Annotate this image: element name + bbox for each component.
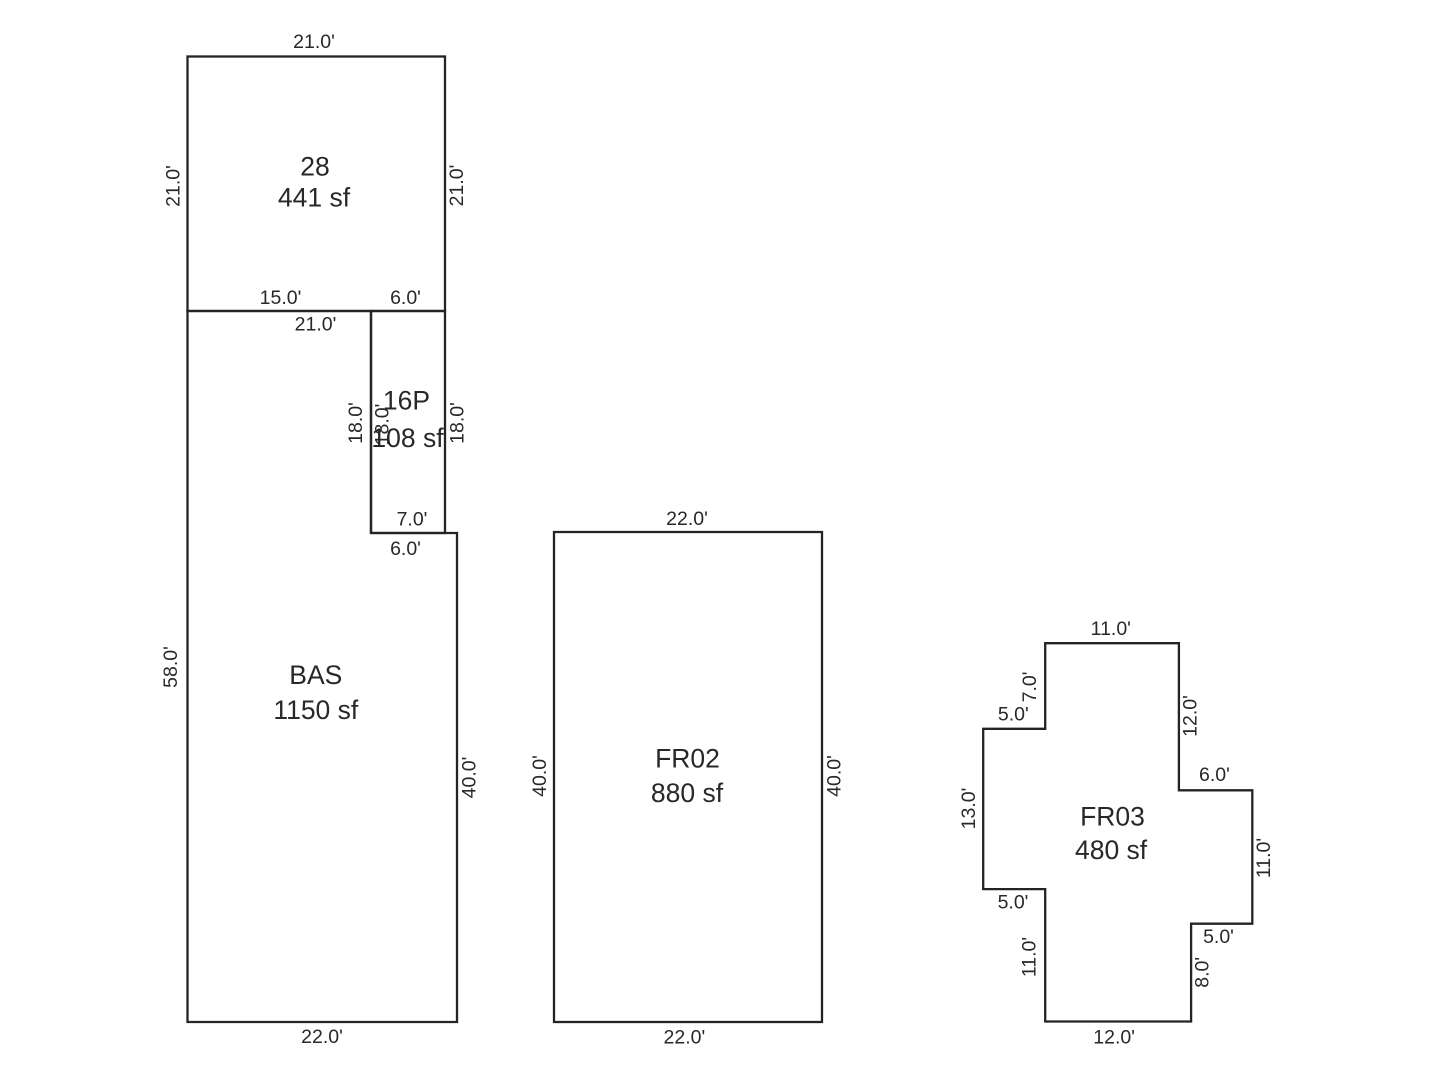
svg-text:13.0': 13.0': [958, 788, 980, 830]
svg-text:1150 sf: 1150 sf: [273, 695, 359, 725]
svg-text:40.0': 40.0': [459, 757, 481, 799]
svg-text:5.0': 5.0': [998, 704, 1029, 726]
room FR03 outline: [983, 643, 1252, 1021]
svg-text:5.0': 5.0': [998, 891, 1029, 913]
svg-text:40.0': 40.0': [529, 755, 551, 797]
svg-text:21.0': 21.0': [446, 165, 468, 207]
svg-text:58.0': 58.0': [160, 646, 182, 688]
svg-text:6.0': 6.0': [390, 287, 421, 309]
svg-text:6.0': 6.0': [1199, 764, 1230, 786]
svg-text:18.0': 18.0': [345, 402, 367, 444]
svg-text:BAS: BAS: [289, 660, 342, 690]
svg-text:7.0': 7.0': [397, 509, 428, 531]
svg-text:12.0': 12.0': [1180, 695, 1202, 737]
svg-text:FR02: FR02: [655, 744, 720, 774]
svg-text:441 sf: 441 sf: [278, 183, 351, 213]
svg-text:40.0': 40.0': [824, 755, 846, 797]
svg-text:21.0': 21.0': [163, 165, 185, 207]
svg-text:880 sf: 880 sf: [651, 778, 724, 808]
svg-text:22.0': 22.0': [666, 508, 708, 530]
svg-text:11.0': 11.0': [1091, 618, 1131, 640]
svg-text:FR03: FR03: [1080, 802, 1145, 832]
svg-text:21.0': 21.0': [293, 31, 335, 53]
room FR02 outline: [554, 532, 822, 1022]
svg-text:21.0': 21.0': [295, 314, 337, 336]
room 16P outline: [371, 311, 445, 533]
svg-text:5.0': 5.0': [1203, 926, 1234, 948]
svg-text:15.0': 15.0': [260, 287, 302, 309]
svg-text:8.0': 8.0': [1192, 957, 1214, 988]
svg-text:6.0': 6.0': [390, 538, 421, 560]
svg-text:22.0': 22.0': [664, 1027, 706, 1049]
room 28 outline: [188, 57, 446, 312]
svg-text:7.0': 7.0': [1019, 671, 1041, 702]
svg-text:11.0': 11.0': [1253, 838, 1275, 878]
svg-text:480 sf: 480 sf: [1075, 835, 1148, 865]
svg-text:11.0': 11.0': [1019, 937, 1041, 977]
svg-text:28: 28: [300, 152, 329, 182]
svg-text:12.0': 12.0': [1093, 1027, 1135, 1049]
svg-text:22.0': 22.0': [301, 1026, 343, 1048]
svg-text:18.0': 18.0': [447, 402, 469, 444]
room BAS outline: [188, 311, 458, 1022]
svg-text:18.0': 18.0': [372, 404, 394, 446]
